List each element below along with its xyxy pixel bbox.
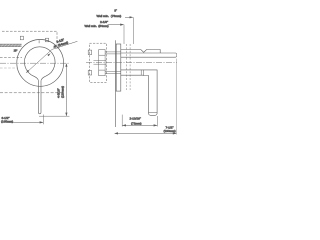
label V1 (rotated vertical)	[57, 86, 65, 98]
extension line stem bottom	[39, 115, 70, 117]
svg-text:(165mm): (165mm)	[1, 120, 13, 124]
lever handle stem (front view)	[34, 76, 46, 114]
valve body lower port	[99, 70, 105, 76]
vertical dimension V1 line	[65, 64, 67, 116]
svg-text:2-13/16": 2-13/16"	[130, 117, 141, 121]
node mounting mark right	[45, 38, 48, 42]
wire dashed hidden line left	[0, 57, 22, 59]
svg-text:Wall min.: Wall min.	[85, 24, 98, 28]
arrowhead dim A	[130, 16, 134, 18]
svg-text:(72mm): (72mm)	[131, 122, 142, 126]
arrowhead D1 right	[154, 124, 158, 126]
svg-text:Wall min.: Wall min.	[97, 14, 110, 18]
svg-text:(78mm): (78mm)	[111, 14, 122, 18]
arrowhead D2 left	[114, 132, 118, 134]
valve cartridge verticals	[99, 55, 105, 70]
valve body upper port	[99, 50, 105, 56]
valve rough-in dashed box (side view)	[90, 43, 107, 82]
node index tick	[38, 40, 40, 43]
extension line D1 left	[121, 115, 123, 127]
escutcheon inner circle	[24, 47, 55, 76]
finished wall line	[114, 40, 116, 127]
supply stub upper	[88, 50, 91, 55]
arrowhead upper-right	[47, 53, 50, 56]
handle rod	[121, 53, 177, 57]
extension line D2 right	[176, 59, 178, 135]
svg-text:(54mm): (54mm)	[98, 24, 109, 28]
svg-text:(110mm): (110mm)	[60, 86, 64, 98]
arrowhead D2 right	[173, 132, 177, 134]
svg-text:3": 3"	[114, 8, 117, 12]
wire centerline horizontal (front view)	[0, 62, 70, 64]
pipe to handle valve	[105, 52, 121, 54]
valve center body lines	[94, 61, 107, 65]
arrowhead V1 bottom	[65, 113, 67, 117]
arrowhead V1 top	[65, 63, 67, 67]
arrowhead D1 left	[122, 124, 126, 126]
hidden dashed verticals (in-wall)	[127, 44, 131, 90]
extension line dim B	[123, 25, 125, 44]
arrowhead lower-left	[26, 70, 29, 73]
escutcheon outer circle	[17, 40, 64, 87]
dimension bottom-left leader	[7, 121, 43, 123]
handle base block with lever notch	[121, 50, 160, 54]
node mounting mark left	[20, 36, 23, 40]
arrowhead bottom-left dim	[40, 121, 44, 123]
spout tube (side view)	[121, 70, 157, 115]
escutcheon plate (side view)	[116, 44, 121, 91]
wire dashed deck line	[0, 92, 62, 94]
pipe to spout	[105, 71, 121, 73]
extension line D1 right	[156, 116, 158, 127]
arrowhead dim B	[120, 24, 124, 26]
wall section bar (front view, hatched)	[0, 44, 22, 47]
diameter dimension line (diagonal)	[26, 41, 77, 73]
wire dashed reference line top	[2, 31, 57, 49]
extension line dim A	[132, 17, 134, 44]
centerline side view	[86, 61, 177, 63]
wire dashed hidden line lower-left	[0, 67, 17, 69]
svg-text:(190mm): (190mm)	[164, 129, 176, 133]
extension line lever bottom	[42, 115, 44, 125]
spout aerator line	[149, 112, 158, 114]
spout joint ticks	[141, 70, 143, 76]
supply stub lower	[88, 71, 91, 76]
svg-text:15°: 15°	[14, 49, 18, 53]
